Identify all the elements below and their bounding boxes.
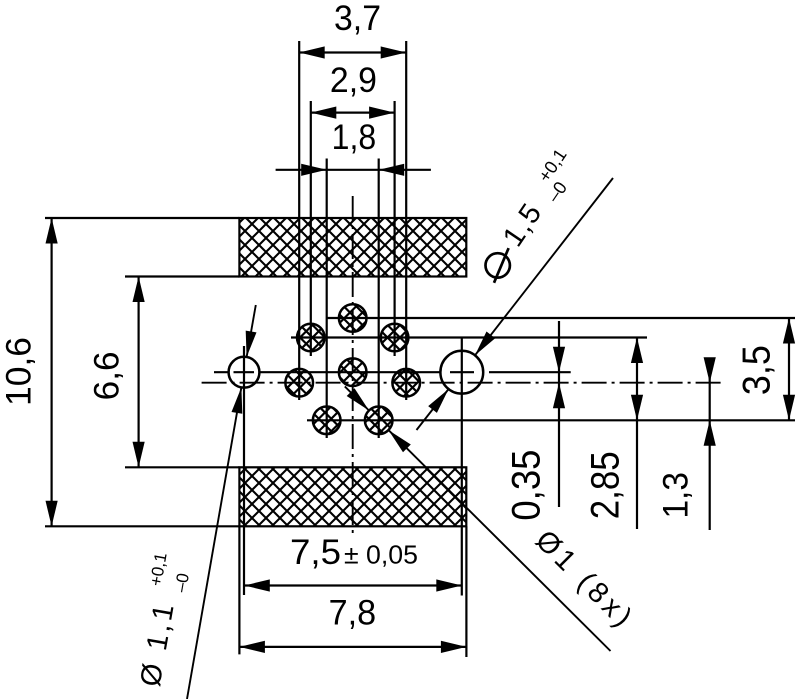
svg-text:7,5: 7,5 — [290, 533, 341, 572]
extension line col 3,7 left — [298, 41, 300, 400]
dimension line 1,3 — [709, 361, 711, 530]
svg-text:± 0,05: ± 0,05 — [344, 540, 418, 570]
label dia 1,1 with tolerance rotated — [129, 551, 196, 690]
arrow 10,6 top — [46, 218, 58, 244]
leader dia 1,5 lower arrowhead with tail — [417, 389, 449, 430]
row line upper pair holes — [291, 336, 647, 338]
small hole C1 mid left — [285, 369, 313, 397]
arrow 3,5 top — [783, 318, 795, 344]
extension line rect right edge — [465, 526, 467, 657]
extension line 10,6 top — [45, 217, 239, 219]
row line big circles — [214, 371, 571, 373]
small hole B1 upper left — [297, 324, 325, 352]
dimension line 0,35 — [558, 321, 560, 507]
small hole D2 bottom right — [365, 407, 393, 435]
arrow 3,5 bottom — [783, 395, 795, 421]
arrow 7,8 right — [441, 641, 467, 653]
arrow 10,6 bottom — [46, 501, 58, 527]
leader dia 1,1 upper arrowhead with tail — [247, 305, 256, 357]
svg-text:2,9: 2,9 — [330, 61, 377, 100]
leader dia 1,5 upper line — [475, 178, 613, 355]
svg-text:1,3: 1,3 — [657, 472, 696, 519]
svg-text:10,6: 10,6 — [0, 337, 38, 406]
extension line col 2,9 right — [394, 101, 396, 356]
extension line 6,6 top — [125, 275, 239, 277]
small hole B2 upper right — [381, 324, 409, 352]
arrow 2,85 top — [631, 338, 643, 364]
leader dia 1,5 upper arrowhead — [475, 332, 495, 356]
row line top holes — [327, 317, 796, 319]
arrow 1,8 right outside — [379, 164, 405, 176]
small hole C2 mid right — [392, 369, 420, 397]
dimension line 7,8 — [239, 646, 466, 648]
arrow 0,35 top outside — [553, 347, 565, 373]
extension line col big circle right — [461, 338, 463, 596]
dimension line 2,85 — [636, 338, 638, 530]
leader dia 1 upper arrowhead with tail — [345, 386, 369, 410]
small hole A1 top center — [285, 304, 420, 434]
svg-text:6,6: 6,6 — [88, 351, 127, 400]
big hole left dia 1,1 — [229, 357, 260, 388]
arrow 7,8 left — [239, 641, 265, 653]
arrow 6,6 bottom — [133, 442, 145, 468]
big hole right dia 1,5 — [440, 351, 483, 394]
arrow 3,7 right — [381, 46, 407, 58]
small hole D1 bottom left — [313, 407, 341, 435]
arrow 2,9 left — [311, 107, 337, 119]
arrow 1,3 top outside — [704, 357, 716, 383]
small hole A2 center — [339, 358, 367, 386]
svg-text:2,85: 2,85 — [584, 451, 628, 519]
dimension line 2,9 — [311, 111, 395, 113]
svg-text:–0: –0 — [171, 572, 193, 594]
extension line 10,6 bottom — [45, 525, 239, 527]
dimension line 1,8 — [276, 169, 431, 171]
label dia 1 (8x) rotated — [529, 524, 638, 633]
svg-text:1,8: 1,8 — [332, 118, 377, 157]
extension line col big circle left — [243, 346, 245, 595]
arrow 2,9 right — [369, 107, 395, 119]
dimension line 3,5 — [788, 318, 790, 420]
extension line col 1,8 right — [378, 159, 380, 439]
svg-text:7,8: 7,8 — [329, 594, 377, 633]
dimension line 3,7 — [299, 51, 406, 53]
extension line rect left edge — [238, 526, 240, 654]
dimension line 7,5 — [244, 584, 461, 586]
arrow 2,85 bottom — [631, 395, 643, 421]
arrow 1,3 bottom outside — [704, 420, 716, 446]
extension line col 3,7 right — [405, 41, 407, 400]
svg-text:0,35: 0,35 — [505, 450, 549, 521]
arrow 3,7 left — [299, 46, 325, 58]
arrow 7,5 left — [244, 579, 269, 591]
extension line col 2,9 left — [310, 101, 312, 356]
extension line col 1,8 left — [326, 159, 328, 439]
extension line 6,6 bottom — [125, 466, 239, 468]
row line bottom holes — [307, 419, 795, 421]
label dia 1,5 with tolerance rotated — [486, 145, 572, 283]
svg-text:3,5: 3,5 — [736, 345, 779, 395]
svg-text:3,7: 3,7 — [334, 0, 381, 38]
arrow 7,5 right — [436, 579, 462, 591]
horizontal centerline dash-dot — [202, 382, 722, 384]
arrow 1,8 left outside — [301, 164, 327, 176]
leader dia 1,1 lower line to label — [187, 387, 241, 699]
top body cross-section rect — [239, 218, 466, 277]
bottom body cross-section rect — [239, 467, 466, 526]
arrow 6,6 top — [133, 277, 145, 303]
dimension line 6,6 — [138, 277, 140, 468]
leader dia 1 lower line to label — [389, 430, 611, 651]
arrow 0,35 bottom outside — [553, 383, 565, 409]
dimension line 10,6 — [50, 218, 52, 526]
vertical centerline dash-dot — [352, 196, 354, 537]
